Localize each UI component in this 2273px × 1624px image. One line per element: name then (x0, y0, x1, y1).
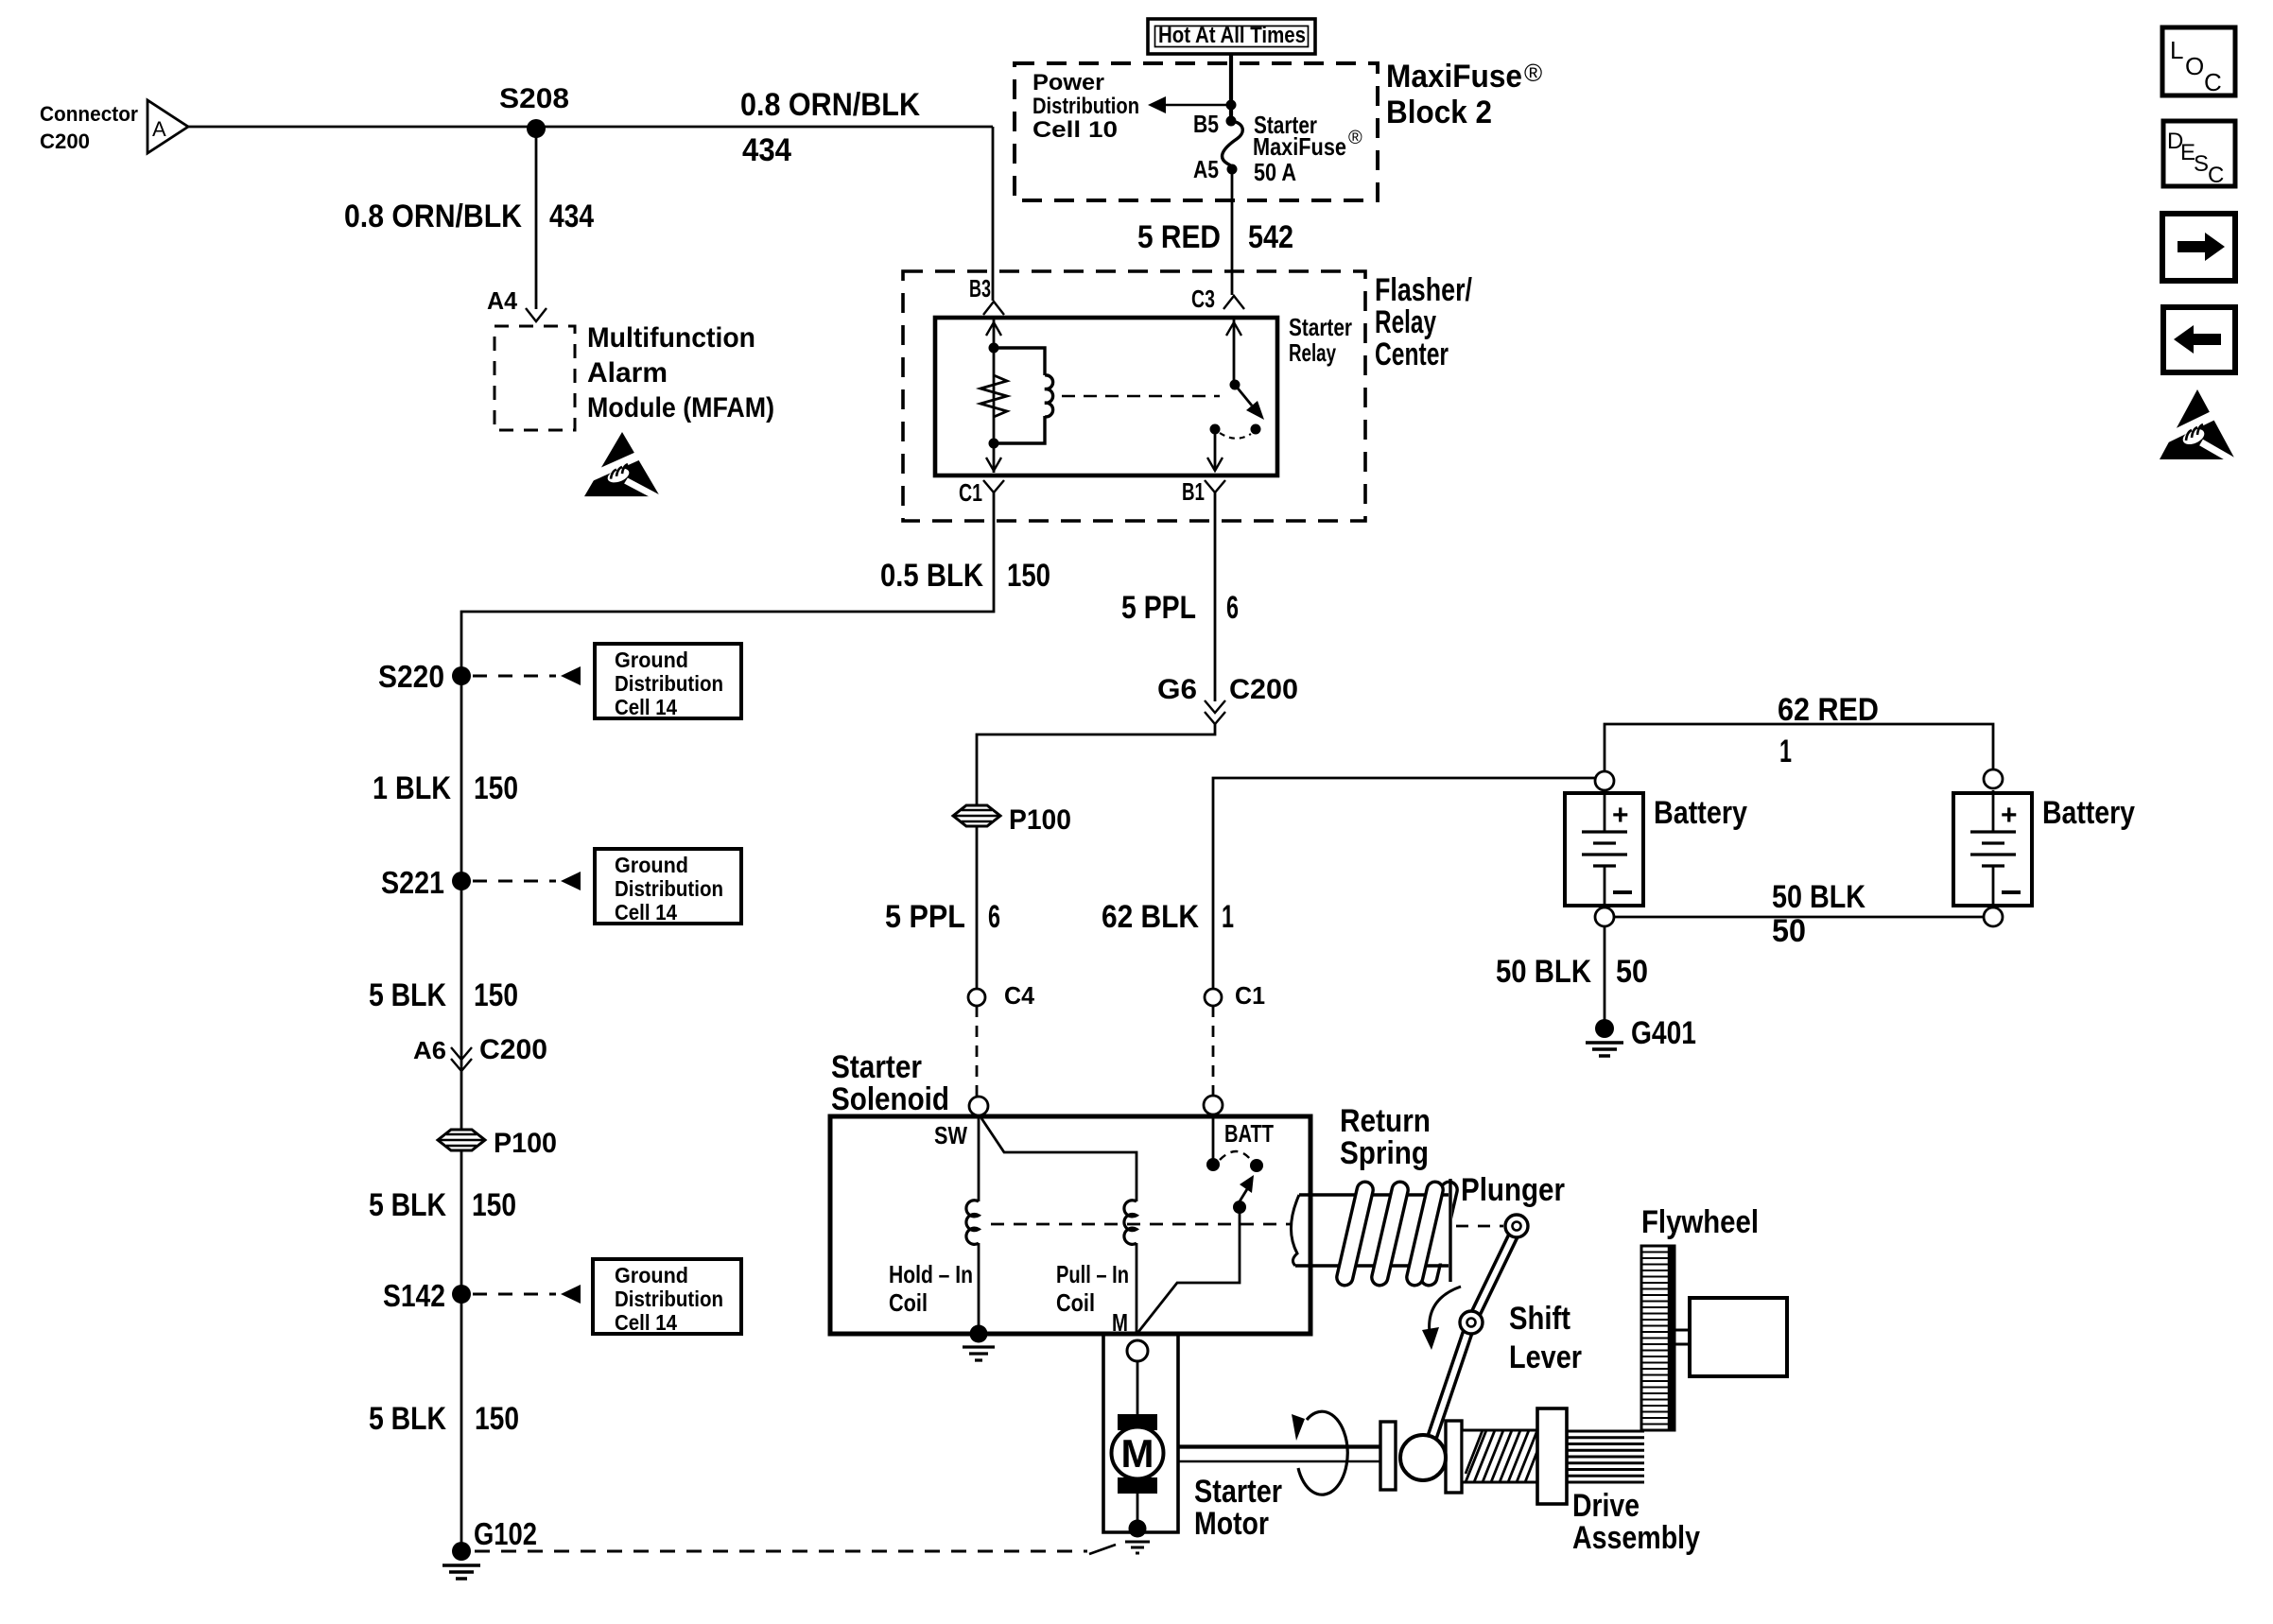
svg-text:Return: Return (1340, 1103, 1431, 1139)
svg-text:434: 434 (549, 199, 594, 234)
svg-text:Relay: Relay (1375, 304, 1436, 340)
svg-text:Distribution: Distribution (615, 671, 723, 696)
svg-text:C1: C1 (959, 478, 982, 507)
svg-text:Motor: Motor (1194, 1506, 1269, 1542)
svg-text:Ground: Ground (615, 1263, 688, 1287)
svg-text:C1: C1 (1235, 981, 1265, 1010)
svg-text:Relay: Relay (1289, 338, 1336, 367)
svg-text:434: 434 (742, 132, 791, 168)
svg-text:Multifunction: Multifunction (587, 322, 755, 354)
svg-text:150: 150 (1007, 558, 1050, 594)
svg-text:5 BLK: 5 BLK (369, 977, 446, 1013)
svg-text:A6: A6 (413, 1036, 446, 1064)
svg-text:1: 1 (1222, 899, 1234, 935)
svg-text:Ground: Ground (615, 853, 688, 877)
svg-text:P100: P100 (494, 1128, 557, 1159)
svg-text:Distribution: Distribution (615, 1287, 723, 1311)
svg-text:Alarm: Alarm (587, 357, 668, 389)
svg-text:P100: P100 (1009, 804, 1071, 836)
svg-text:5 RED: 5 RED (1137, 219, 1221, 255)
svg-text:Block 2: Block 2 (1386, 95, 1492, 130)
svg-text:Power: Power (1032, 70, 1104, 95)
svg-text:Cell 14: Cell 14 (615, 695, 677, 719)
svg-text:Battery: Battery (1654, 795, 1747, 831)
svg-text:BATT: BATT (1224, 1119, 1274, 1148)
svg-text:Shift: Shift (1509, 1301, 1570, 1337)
svg-text:50: 50 (1772, 913, 1806, 949)
svg-text:C3: C3 (1191, 285, 1215, 313)
svg-text:C200: C200 (479, 1034, 547, 1065)
svg-text:S220: S220 (378, 659, 444, 694)
svg-text:S: S (2194, 151, 2209, 177)
svg-text:C: C (2208, 163, 2224, 188)
svg-text:G102: G102 (474, 1516, 537, 1551)
svg-text:Ground: Ground (615, 648, 688, 672)
svg-text:6: 6 (1226, 590, 1239, 626)
svg-text:5 BLK: 5 BLK (369, 1401, 446, 1437)
svg-text:Pull – In: Pull – In (1056, 1260, 1129, 1288)
svg-text:Solenoid: Solenoid (831, 1081, 949, 1117)
svg-text:150: 150 (472, 1187, 516, 1223)
svg-text:150: 150 (474, 977, 518, 1013)
svg-text:Battery: Battery (2042, 795, 2135, 831)
svg-text:542: 542 (1248, 219, 1293, 255)
svg-text:Assembly: Assembly (1572, 1520, 1700, 1556)
svg-text:S221: S221 (381, 865, 444, 900)
svg-text:62 RED: 62 RED (1778, 692, 1879, 728)
svg-text:50: 50 (1616, 954, 1648, 990)
svg-text:Drive: Drive (1572, 1488, 1640, 1524)
svg-text:M: M (1121, 1431, 1154, 1476)
svg-text:0.8 ORN/BLK: 0.8 ORN/BLK (740, 87, 920, 123)
svg-text:Flywheel: Flywheel (1641, 1204, 1759, 1240)
svg-text:®: ® (1348, 128, 1362, 148)
svg-text:Coil: Coil (889, 1288, 928, 1317)
svg-text:Plunger: Plunger (1461, 1172, 1565, 1208)
svg-text:S208: S208 (499, 83, 569, 114)
svg-text:B1: B1 (1182, 477, 1205, 506)
svg-text:150: 150 (475, 1401, 519, 1437)
svg-text:S142: S142 (383, 1278, 445, 1313)
svg-text:C4: C4 (1004, 981, 1035, 1010)
svg-text:G6: G6 (1157, 674, 1197, 705)
svg-text:B5: B5 (1193, 110, 1219, 138)
svg-text:Starter: Starter (1289, 313, 1352, 341)
svg-text:MaxiFuse: MaxiFuse (1253, 132, 1346, 161)
svg-text:A: A (152, 117, 166, 141)
svg-text:1 BLK: 1 BLK (373, 770, 451, 806)
svg-text:Module (MFAM): Module (MFAM) (587, 392, 774, 423)
svg-text:C200: C200 (40, 130, 90, 153)
svg-text:50 BLK: 50 BLK (1496, 954, 1591, 990)
svg-text:Center: Center (1375, 337, 1449, 372)
svg-text:M: M (1112, 1308, 1128, 1337)
svg-text:Hold – In: Hold – In (889, 1260, 973, 1288)
svg-text:62 BLK: 62 BLK (1102, 899, 1199, 935)
svg-text:0.5 BLK: 0.5 BLK (880, 558, 983, 594)
svg-text:5 PPL: 5 PPL (1121, 590, 1196, 626)
svg-text:0.8 ORN/BLK: 0.8 ORN/BLK (344, 199, 522, 234)
svg-text:SW: SW (934, 1121, 967, 1149)
svg-text:L: L (2170, 36, 2183, 64)
svg-text:A4: A4 (487, 286, 518, 315)
svg-text:A5: A5 (1193, 155, 1219, 183)
svg-text:O: O (2185, 52, 2204, 80)
svg-text:Hot At All Times: Hot At All Times (1158, 23, 1306, 48)
svg-text:Lever: Lever (1509, 1339, 1582, 1375)
svg-text:Distribution: Distribution (1032, 94, 1139, 119)
svg-text:1: 1 (1779, 734, 1792, 769)
svg-text:B3: B3 (969, 274, 991, 302)
svg-text:Spring: Spring (1340, 1135, 1429, 1171)
svg-text:5 PPL: 5 PPL (885, 899, 965, 935)
svg-text:6: 6 (988, 899, 1000, 935)
svg-text:MaxiFuse: MaxiFuse (1386, 59, 1522, 95)
svg-text:+: + (1612, 800, 1629, 831)
svg-text:5 BLK: 5 BLK (369, 1187, 446, 1223)
svg-text:C200: C200 (1229, 674, 1298, 705)
svg-text:Cell 14: Cell 14 (615, 1310, 677, 1335)
svg-text:50 A: 50 A (1254, 158, 1296, 186)
svg-text:Cell 10: Cell 10 (1032, 117, 1118, 143)
svg-text:Coil: Coil (1056, 1288, 1095, 1317)
svg-text:®: ® (1524, 59, 1542, 87)
svg-text:Cell 14: Cell 14 (615, 900, 677, 924)
svg-text:C: C (2204, 68, 2222, 96)
svg-text:G401: G401 (1631, 1015, 1696, 1051)
svg-text:Connector: Connector (40, 102, 138, 126)
svg-text:Distribution: Distribution (615, 876, 723, 901)
svg-text:+: + (2001, 800, 2018, 831)
svg-text:150: 150 (474, 770, 518, 806)
svg-text:Starter: Starter (1194, 1474, 1282, 1510)
svg-text:50 BLK: 50 BLK (1772, 879, 1865, 915)
svg-text:Starter: Starter (831, 1049, 922, 1085)
svg-text:Flasher/: Flasher/ (1375, 272, 1472, 308)
